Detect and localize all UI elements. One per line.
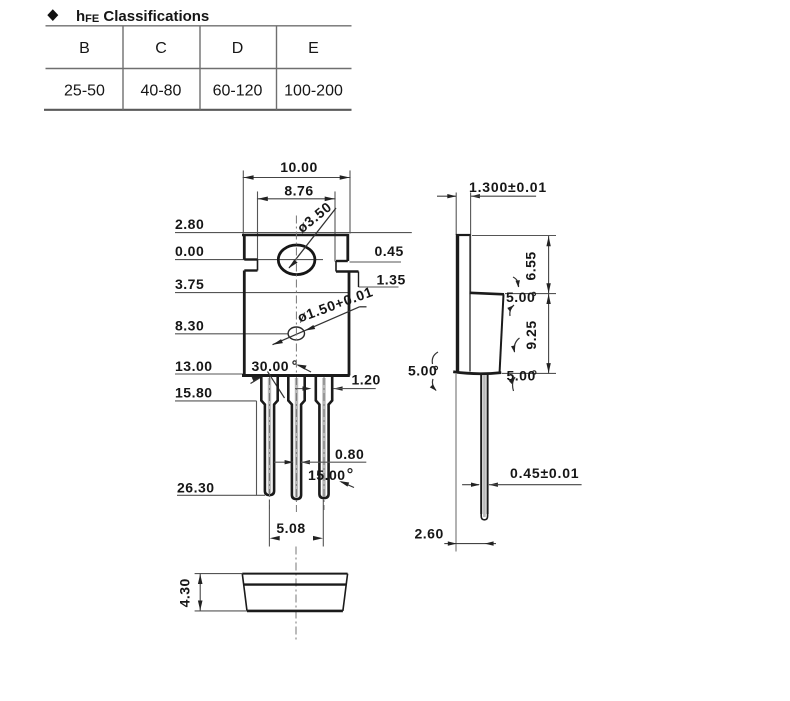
- leader 15.80: [175, 400, 257, 402]
- centerline lead 1: [269, 377, 271, 509]
- arrow 9.25 bottom: [546, 363, 550, 373]
- svg-text:D: D: [232, 40, 244, 57]
- dim 8.76 line: [258, 198, 336, 200]
- svg-text:C: C: [155, 40, 167, 57]
- lead 2 core shading: [295, 378, 298, 497]
- svg-text:1.35: 1.35: [377, 272, 406, 288]
- arc arrow 5.00 bottom-right below: [509, 377, 515, 384]
- table bottom border: [44, 109, 352, 111]
- side tab right edge: [469, 235, 471, 372]
- arc arrow 5.00 step above: [516, 280, 520, 287]
- side tab top edge: [456, 234, 471, 236]
- svg-text:5.00: 5.00: [408, 363, 437, 379]
- dim 4.30 extension bottom: [195, 610, 247, 612]
- dim 5.08 arrow left: [270, 536, 280, 541]
- svg-text:1.300±0.01: 1.300±0.01: [469, 179, 547, 195]
- svg-text:E: E: [308, 40, 319, 57]
- dim 0.45 left segment: [462, 484, 479, 486]
- lead 1 core shading: [268, 378, 271, 493]
- dim 8.76 extension line right: [334, 192, 336, 261]
- leader 1.20 left segment: [295, 388, 305, 390]
- svg-text:8.30: 8.30: [175, 318, 204, 334]
- front right notch inner: [335, 261, 337, 272]
- side lead left line: [480, 374, 482, 514]
- svg-text:2.80: 2.80: [175, 216, 204, 232]
- arc 5.00 bottom-right below: [513, 377, 515, 391]
- table vertical line 1: [122, 26, 124, 110]
- arrow 30.00 hook: [297, 364, 307, 369]
- table top border: [46, 25, 352, 27]
- leader 26.30: [177, 494, 265, 496]
- dim 8.76 arrow right: [325, 197, 335, 202]
- svg-text:0.00: 0.00: [175, 243, 204, 259]
- svg-text:0.45±0.01: 0.45±0.01: [510, 465, 579, 481]
- svg-text:26.30: 26.30: [177, 480, 215, 496]
- svg-text:9.25: 9.25: [523, 320, 539, 349]
- extension tab-left down: [455, 374, 457, 552]
- front bottom edge: [242, 374, 350, 377]
- dim 4.30 extension top: [195, 573, 243, 575]
- bottom view right side: [343, 574, 348, 611]
- svg-text:10.00: 10.00: [280, 159, 318, 175]
- leader dia 1.50 end tick: [360, 306, 367, 308]
- arrow 2.60 right: [485, 541, 494, 545]
- svg-text:5.08: 5.08: [276, 520, 305, 536]
- bracket vertical 15.80 to 26.30: [256, 401, 258, 495]
- arc 5.00 bottom-left below: [432, 379, 436, 391]
- arrow 15.00: [339, 481, 349, 487]
- mounting hole: [278, 245, 315, 275]
- leader 30.00 hook: [298, 365, 312, 372]
- leader 0.80 left segment: [274, 461, 293, 463]
- dim 1.300 ext left: [455, 193, 457, 236]
- svg-text:15.00: 15.00: [308, 467, 346, 483]
- dim 10.00 arrow right: [340, 175, 350, 180]
- dim 8.76 extension line left: [257, 192, 259, 259]
- arc 5.00 step below: [510, 305, 514, 316]
- front right notch bottom / stub top: [336, 270, 359, 272]
- svg-text:3.75: 3.75: [175, 276, 204, 292]
- dim 1.300 line right part: [471, 195, 536, 197]
- dim 1.300 arrow right: [471, 194, 480, 198]
- dim 10.00 line: [243, 177, 350, 179]
- dim 6.55/9.25 vertical line: [548, 236, 550, 373]
- package front outline: [242, 234, 359, 376]
- svg-text:15.80: 15.80: [175, 385, 213, 401]
- leader dia 3.50: [289, 208, 336, 268]
- centerline package vertical lower: [295, 547, 297, 641]
- svg-text:30.00: 30.00: [252, 358, 290, 374]
- lead 3 core shading: [322, 378, 325, 496]
- svg-text:100-200: 100-200: [284, 83, 343, 100]
- dim 10.00 extension line left: [242, 171, 244, 233]
- svg-text:8.76: 8.76: [284, 183, 313, 199]
- leader dia 1.50: [273, 307, 360, 345]
- front right body edge: [348, 272, 351, 376]
- arrow 0.45 right: [489, 483, 498, 487]
- arrow 0.45 left: [471, 483, 480, 487]
- arc arrow 5.00 bottom-right above: [511, 345, 515, 353]
- front top edge: [242, 234, 349, 237]
- front right stub edge: [358, 272, 360, 288]
- arrow dia 1.50 mid: [305, 325, 315, 331]
- front left notch bottom: [244, 269, 257, 271]
- centerline package vertical mid: [295, 377, 297, 512]
- ext bottom 9.25: [502, 372, 556, 374]
- small hole: [288, 327, 304, 340]
- leader 2.80: [175, 232, 412, 234]
- arrow 0.80 left: [285, 460, 294, 464]
- svg-text:60-120: 60-120: [213, 83, 263, 100]
- side bottom edge: [453, 372, 501, 374]
- svg-text:1.20: 1.20: [352, 372, 381, 388]
- arrow dia 1.50 end: [273, 339, 283, 345]
- bottom view inner line: [244, 583, 347, 585]
- lead 1 outline: [261, 377, 277, 496]
- table vertical line 3: [276, 26, 278, 110]
- svg-text:B: B: [79, 40, 90, 57]
- leader 30.00 left: [251, 377, 263, 384]
- dim 2.60 line: [444, 543, 496, 545]
- svg-text:5.00: 5.00: [506, 289, 535, 305]
- side body right edge: [500, 294, 504, 372]
- side lead right line: [487, 374, 489, 514]
- bottom view left side: [242, 574, 247, 611]
- arrow 6.55 bottom: [546, 283, 550, 293]
- svg-text:40-80: 40-80: [141, 83, 182, 100]
- dim 4.30 arrow top: [198, 574, 203, 584]
- bottom view bottom edge: [247, 610, 343, 613]
- arc 5.00 bottom-left above: [432, 352, 438, 364]
- leader 0.45: [350, 261, 402, 263]
- lead 2 outline: [288, 377, 304, 500]
- dim 5.08 extension left: [268, 500, 270, 547]
- svg-text:13.00: 13.00: [175, 358, 213, 374]
- front right notch top: [336, 260, 348, 262]
- svg-text:25-50: 25-50: [64, 83, 105, 100]
- side tab left edge: [456, 234, 459, 372]
- arc arrow 5.00 bottom-left below: [430, 384, 437, 391]
- degree 5.00 step: [532, 292, 535, 295]
- dim 0.45 right segment: [489, 484, 582, 486]
- arc 5.00 bottom-right above: [514, 338, 519, 352]
- front left body edge: [243, 271, 246, 376]
- arrow 9.25 top: [546, 294, 550, 304]
- leader 13.00: [175, 373, 243, 375]
- dim 1.300 ext right: [470, 193, 472, 294]
- dim 4.30 arrow bottom: [198, 601, 203, 611]
- bottom view top edge: [242, 573, 347, 575]
- arrow 6.55 top: [546, 236, 550, 246]
- front left notch top: [244, 258, 257, 260]
- lead 3 outline: [316, 377, 332, 499]
- front left tab edge: [243, 234, 246, 260]
- dim 8.76 arrow left: [258, 197, 268, 202]
- dim 10.00 arrow left: [244, 175, 254, 180]
- front right tab edge: [346, 234, 349, 261]
- leader 3.75: [175, 292, 348, 294]
- degree mark 15.00: [348, 469, 352, 473]
- arrow dia 3.50: [289, 260, 298, 269]
- table vertical line 2: [199, 26, 201, 110]
- arrow 1.20 left: [303, 386, 312, 390]
- leader 1.20 right segment: [334, 388, 376, 390]
- dim 1.300 arrow left: [447, 194, 456, 198]
- arrow 0.80 right: [301, 460, 310, 464]
- leader 8.30: [175, 333, 289, 335]
- arc arrow 5.00 step below: [507, 305, 514, 311]
- side lead core shading: [483, 375, 486, 517]
- leader 0.00: [175, 259, 323, 261]
- dim 5.08 extension right: [322, 500, 324, 547]
- side body top step: [470, 293, 505, 295]
- svg-text:0.80: 0.80: [335, 446, 364, 462]
- svg-text:6.55: 6.55: [522, 251, 538, 280]
- dim 5.08 arrow right: [313, 536, 323, 541]
- centerline package vertical upper: [295, 216, 297, 376]
- svg-text:0.45: 0.45: [375, 243, 404, 259]
- svg-text:4.30: 4.30: [177, 578, 193, 607]
- chamfer angle line 30deg: [268, 372, 285, 399]
- table middle border: [46, 68, 352, 70]
- ext top 6.55: [472, 235, 556, 237]
- leader 15.00 hook: [341, 482, 354, 488]
- header diamond bullet: [47, 9, 58, 21]
- svg-text:2.60: 2.60: [415, 526, 444, 542]
- ext mid 6.55/9.25: [505, 293, 556, 295]
- centerline lead 3: [323, 377, 325, 510]
- dim 4.30 line: [199, 574, 201, 611]
- leader 0.80 right segment: [301, 461, 366, 463]
- arc 5.00 step above: [513, 277, 519, 287]
- arrow 2.60 left: [448, 541, 457, 545]
- front left notch inner: [257, 260, 259, 271]
- degree 5.00 bottom-right: [533, 371, 536, 374]
- degree 5.00 bottom-left: [434, 366, 437, 369]
- dim 10.00 extension line right: [349, 171, 351, 233]
- arrow 1.20 right: [334, 386, 343, 390]
- arrow 30.00 left: [252, 376, 263, 381]
- leader 1.35: [359, 286, 399, 288]
- side lead tip: [481, 514, 487, 520]
- degree mark 30.00: [293, 361, 296, 364]
- dim 1.300 line left part: [437, 195, 456, 197]
